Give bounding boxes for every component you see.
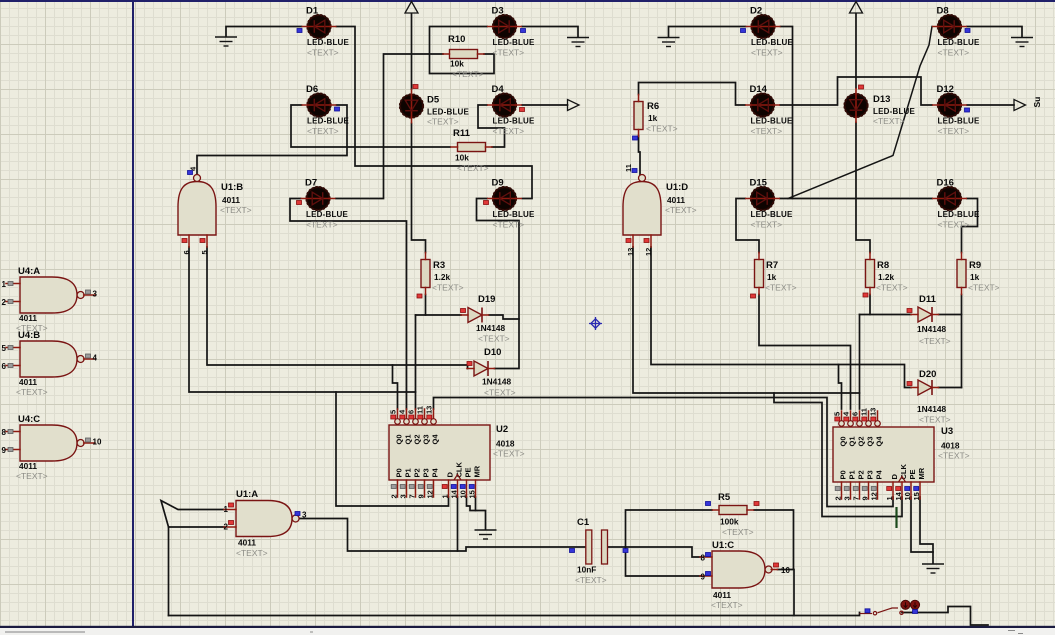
wire R9 bottom to diode cathode bus bbox=[961, 295, 963, 388]
LED D14 (LED-BLUE) bbox=[745, 93, 780, 117]
svg-text:4018: 4018 bbox=[496, 439, 515, 449]
wire node to U1:C pin9 bbox=[626, 547, 701, 576]
wire D19 cathode jog bbox=[489, 315, 519, 319]
wire U3 Q2 vertical bbox=[859, 315, 861, 410]
resistor R7 bbox=[755, 260, 764, 288]
svg-text:100k: 100k bbox=[720, 517, 739, 527]
wire green segment at U3 D pin bbox=[895, 507, 897, 528]
svg-text:10nF: 10nF bbox=[577, 565, 596, 575]
LED D6 (LED-BLUE) bbox=[302, 93, 337, 117]
svg-text:LED-BLUE: LED-BLUE bbox=[751, 117, 794, 126]
port arrow P1 bbox=[405, 2, 418, 14]
svg-text:<TEXT>: <TEXT> bbox=[493, 449, 525, 459]
ground GND4 bbox=[1011, 38, 1033, 47]
resistor R11 bbox=[458, 143, 486, 152]
gate body U1:C bbox=[712, 551, 765, 588]
svg-text:D16: D16 bbox=[937, 178, 954, 189]
sheet border left bbox=[132, 0, 134, 627]
wire D7 left loop to U2 Q1 bbox=[290, 199, 407, 410]
svg-text:LED-BLUE: LED-BLUE bbox=[427, 108, 470, 117]
node square R5 right bbox=[754, 502, 759, 506]
svg-text:Q1: Q1 bbox=[403, 434, 412, 444]
svg-text:D14: D14 bbox=[750, 84, 768, 95]
wire U1:B pin6 to U2 Q2 net bbox=[189, 247, 416, 392]
pins U4:C bbox=[6, 431, 20, 433]
svg-text:15: 15 bbox=[468, 490, 477, 498]
wire D15 right to D16 left bbox=[780, 198, 932, 200]
wire D16 right to R9 top bbox=[962, 199, 978, 253]
svg-text:13: 13 bbox=[869, 408, 878, 416]
svg-text:<TEXT>: <TEXT> bbox=[919, 336, 951, 346]
svg-text:3: 3 bbox=[302, 511, 307, 520]
svg-text:CLK: CLK bbox=[899, 464, 908, 480]
svg-text:D7: D7 bbox=[305, 178, 317, 189]
wire D5 bottom to R3 top bbox=[412, 124, 426, 253]
wire R8 junction to D11 anode bbox=[860, 314, 912, 316]
svg-text:5: 5 bbox=[833, 412, 842, 416]
svg-text:Q0: Q0 bbox=[394, 434, 403, 444]
wire D8 cathode to ground bbox=[967, 27, 1022, 38]
svg-text:10: 10 bbox=[781, 566, 790, 575]
pins U2 D CLK PE MR bbox=[448, 480, 450, 497]
sheet border top bbox=[0, 0, 1055, 2]
svg-text:2: 2 bbox=[834, 496, 843, 500]
svg-text:12: 12 bbox=[426, 490, 435, 498]
svg-text:U3: U3 bbox=[941, 426, 953, 437]
svg-text:D4: D4 bbox=[492, 84, 505, 95]
svg-text:4011: 4011 bbox=[19, 313, 37, 323]
node square D9 bbox=[484, 201, 489, 205]
svg-text:LED-BLUE: LED-BLUE bbox=[938, 117, 981, 126]
wire D6 left to R11 left bbox=[291, 105, 450, 147]
svg-text:U1:B: U1:B bbox=[221, 182, 243, 193]
svg-text:1N4148: 1N4148 bbox=[917, 324, 946, 334]
wire D11 cathode to bus bbox=[939, 314, 962, 316]
svg-text:4011: 4011 bbox=[238, 538, 256, 548]
node square D19 bbox=[461, 309, 466, 313]
node square D3 bbox=[521, 29, 526, 33]
svg-text:D15: D15 bbox=[750, 178, 768, 189]
svg-text:D19: D19 bbox=[478, 294, 495, 305]
svg-text:LED-BLUE: LED-BLUE bbox=[751, 210, 794, 219]
svg-text:<TEXT>: <TEXT> bbox=[493, 126, 525, 136]
svg-text:D13: D13 bbox=[873, 94, 890, 105]
resistor R8 bbox=[866, 260, 875, 288]
switch knobs bbox=[901, 600, 910, 609]
svg-text:<TEXT>: <TEXT> bbox=[646, 124, 678, 134]
svg-text:U1:C: U1:C bbox=[712, 540, 734, 551]
wire switch right to sheet corner bbox=[902, 607, 988, 626]
svg-text:6: 6 bbox=[851, 412, 860, 416]
wire U1:B pin5 to D10 anode bbox=[207, 247, 468, 369]
wire feedback down bbox=[168, 527, 170, 616]
wire branch to U2 D pin bbox=[336, 392, 449, 506]
svg-text:<TEXT>: <TEXT> bbox=[452, 69, 484, 79]
svg-text:8: 8 bbox=[701, 554, 706, 563]
LED D1 (LED-BLUE) bbox=[302, 14, 337, 38]
wire D2 anode down to row3 net bbox=[781, 27, 793, 199]
svg-text:12: 12 bbox=[870, 492, 879, 500]
svg-text:1N4148: 1N4148 bbox=[476, 323, 505, 333]
svg-text:LED-BLUE: LED-BLUE bbox=[938, 38, 981, 47]
svg-text:8: 8 bbox=[2, 428, 7, 437]
gate body U4:C bbox=[20, 425, 77, 461]
svg-text:1.2k: 1.2k bbox=[878, 272, 895, 282]
wire D2 cathode to ground bbox=[669, 27, 746, 38]
port arrow P2 bbox=[850, 2, 863, 14]
resistor R3 bbox=[421, 260, 430, 288]
node square C1 left bbox=[570, 549, 575, 553]
svg-text:5: 5 bbox=[389, 410, 398, 414]
IC U3 body (4018) bbox=[833, 427, 934, 482]
svg-text:<TEXT>: <TEXT> bbox=[968, 283, 1000, 293]
svg-text:<TEXT>: <TEXT> bbox=[919, 415, 951, 425]
svg-text:1: 1 bbox=[2, 280, 7, 289]
svg-text:P2: P2 bbox=[412, 468, 421, 477]
gate body U4:B bbox=[20, 341, 77, 377]
svg-text:LED-BLUE: LED-BLUE bbox=[493, 117, 536, 126]
svg-text:7: 7 bbox=[408, 494, 417, 498]
LED D16 (LED-BLUE) bbox=[932, 186, 967, 210]
clock chevron U2 bbox=[454, 475, 461, 481]
svg-text:3: 3 bbox=[399, 494, 408, 498]
capacitor C1 bbox=[586, 530, 592, 564]
svg-text:<TEXT>: <TEXT> bbox=[711, 600, 743, 610]
svg-text:<TEXT>: <TEXT> bbox=[484, 388, 516, 398]
wire bottom rail bbox=[169, 613, 860, 616]
svg-text:13: 13 bbox=[425, 406, 434, 414]
svg-text:Q4: Q4 bbox=[430, 434, 439, 445]
svg-text:LED-BLUE: LED-BLUE bbox=[307, 117, 350, 126]
svg-text:2: 2 bbox=[224, 523, 229, 532]
node square D5 bbox=[413, 85, 418, 89]
LED D15 (LED-BLUE) bbox=[745, 186, 780, 210]
svg-text:<TEXT>: <TEXT> bbox=[457, 163, 489, 173]
diode D11 (1N4148) bbox=[918, 307, 932, 322]
port arrow OUT2 Su bbox=[1014, 100, 1026, 111]
wire D9 left loop to cathode bus bbox=[477, 199, 520, 369]
svg-text:Q2: Q2 bbox=[412, 434, 421, 444]
svg-text:LED-BLUE: LED-BLUE bbox=[873, 107, 916, 116]
svg-text:U1:D: U1:D bbox=[666, 182, 688, 193]
svg-text:9: 9 bbox=[2, 446, 7, 455]
node square D20 bbox=[907, 382, 912, 386]
wire D15 left loop to R7 top bbox=[736, 199, 759, 253]
node square R3 bottom bbox=[417, 294, 422, 298]
ground GND5 bbox=[475, 530, 497, 539]
svg-text:R11: R11 bbox=[453, 128, 471, 139]
clock chevron U3 bbox=[899, 477, 906, 483]
ground GND6 bbox=[922, 564, 944, 573]
wire D6 right to U1:B output bbox=[197, 105, 347, 175]
svg-text:R8: R8 bbox=[877, 260, 889, 271]
svg-text:15: 15 bbox=[912, 492, 921, 500]
node square D13 bbox=[859, 85, 864, 89]
wire D3 anode loop to R10 bbox=[430, 27, 495, 74]
svg-text:<TEXT>: <TEXT> bbox=[665, 205, 697, 215]
svg-text:C1: C1 bbox=[577, 517, 590, 528]
svg-text:9: 9 bbox=[701, 573, 706, 582]
svg-text:R3: R3 bbox=[433, 260, 445, 271]
wire D13 bottom to R8 top bbox=[856, 123, 870, 253]
node square D12 bbox=[965, 108, 970, 112]
wire U3 PE to ground bbox=[911, 497, 933, 552]
svg-text:Su: Su bbox=[1032, 97, 1042, 108]
svg-text:R6: R6 bbox=[647, 101, 659, 112]
svg-text:<TEXT>: <TEXT> bbox=[307, 126, 339, 136]
port arrow OUT1 bbox=[568, 100, 580, 111]
wire D1 cathode to ground bbox=[226, 27, 302, 37]
svg-text:3: 3 bbox=[843, 496, 852, 500]
svg-text:2: 2 bbox=[390, 494, 399, 498]
svg-text:11: 11 bbox=[624, 164, 633, 172]
pins U1:C bbox=[700, 556, 712, 558]
wire U2 CLK down to oscillator rail bbox=[457, 497, 459, 551]
svg-text:Q4: Q4 bbox=[874, 436, 883, 447]
svg-text:12: 12 bbox=[644, 248, 653, 256]
resistor R5 bbox=[719, 506, 747, 515]
wire D12 right to Su arrow bbox=[967, 104, 1014, 106]
svg-text:Q3: Q3 bbox=[865, 436, 874, 446]
svg-text:P1: P1 bbox=[403, 468, 412, 477]
svg-text:<TEXT>: <TEXT> bbox=[575, 575, 607, 585]
LED D12 (LED-BLUE) bbox=[932, 93, 967, 117]
svg-text:6: 6 bbox=[407, 410, 416, 414]
svg-text:D3: D3 bbox=[492, 6, 504, 17]
svg-text:P0: P0 bbox=[394, 468, 403, 477]
svg-text:4: 4 bbox=[93, 354, 98, 363]
svg-text:3: 3 bbox=[93, 290, 98, 299]
svg-text:7: 7 bbox=[852, 496, 861, 500]
svg-text:LED-BLUE: LED-BLUE bbox=[306, 210, 349, 219]
node square D2 bbox=[741, 29, 746, 33]
svg-text:<TEXT>: <TEXT> bbox=[478, 334, 510, 344]
svg-text:<TEXT>: <TEXT> bbox=[493, 48, 525, 58]
wire D1 anode to D9 net bbox=[337, 27, 533, 199]
svg-text:<TEXT>: <TEXT> bbox=[751, 220, 783, 230]
svg-text:<TEXT>: <TEXT> bbox=[751, 48, 783, 58]
svg-text:<TEXT>: <TEXT> bbox=[427, 117, 459, 127]
resistor R9 bbox=[957, 260, 966, 288]
svg-text:4011: 4011 bbox=[713, 590, 731, 600]
wire R3 junction to D19 anode bbox=[416, 314, 462, 316]
svg-text:<TEXT>: <TEXT> bbox=[876, 283, 908, 293]
svg-text:1.2k: 1.2k bbox=[434, 272, 451, 282]
svg-text:6: 6 bbox=[2, 362, 7, 371]
LED D9 (LED-BLUE) bbox=[487, 186, 522, 210]
diode D19 (1N4148) bbox=[468, 308, 482, 323]
svg-text:<TEXT>: <TEXT> bbox=[751, 126, 783, 136]
svg-text:U4:B: U4:B bbox=[18, 330, 40, 341]
wire port arrow to D5 top bbox=[411, 14, 413, 90]
svg-text:<TEXT>: <TEXT> bbox=[236, 548, 268, 558]
svg-text:LED-BLUE: LED-BLUE bbox=[938, 210, 981, 219]
pins U4:B bbox=[6, 347, 20, 349]
svg-text:D11: D11 bbox=[919, 294, 937, 305]
svg-text:<TEXT>: <TEXT> bbox=[722, 527, 754, 537]
svg-text:LED-BLUE: LED-BLUE bbox=[307, 38, 350, 47]
svg-text:PE: PE bbox=[463, 467, 472, 477]
svg-text:D: D bbox=[445, 472, 454, 478]
svg-text:P3: P3 bbox=[865, 470, 874, 479]
wire C1 right to U1:C pin8 bbox=[608, 547, 700, 557]
svg-text:MR: MR bbox=[472, 465, 481, 477]
wire U1:C output down to rail bbox=[793, 570, 795, 616]
ground GND1 bbox=[215, 37, 237, 46]
wire U3 MR to ground bbox=[920, 497, 933, 564]
svg-text:<TEXT>: <TEXT> bbox=[938, 220, 970, 230]
svg-text:11: 11 bbox=[416, 406, 425, 414]
svg-text:U4:C: U4:C bbox=[18, 414, 40, 425]
node square C1 node bbox=[623, 549, 628, 553]
svg-text:<TEXT>: <TEXT> bbox=[938, 451, 970, 461]
diode D20 (1N4148) bbox=[918, 380, 932, 395]
svg-text:P4: P4 bbox=[430, 467, 439, 477]
wire branch to U3 CLK bbox=[774, 393, 902, 517]
svg-text:R7: R7 bbox=[766, 260, 778, 271]
svg-text:D9: D9 bbox=[492, 178, 504, 189]
diode D10 (1N4148) bbox=[474, 361, 488, 376]
svg-text:1k: 1k bbox=[970, 272, 980, 282]
pins U1:A bbox=[224, 509, 236, 511]
node square R6 bottom bbox=[633, 136, 638, 140]
IC U2 body (4018) bbox=[389, 425, 490, 480]
gate body U4:A bbox=[20, 277, 77, 313]
svg-text:4011: 4011 bbox=[222, 195, 240, 205]
svg-text:13: 13 bbox=[626, 248, 635, 256]
svg-text:P1: P1 bbox=[847, 470, 856, 479]
LED D5 (LED-BLUE) bbox=[394, 89, 424, 124]
node square D6 bbox=[335, 107, 340, 111]
pins U3 top Q0-Q4 bbox=[841, 411, 843, 421]
pins U1:B bbox=[188, 235, 190, 247]
svg-text:<TEXT>: <TEXT> bbox=[493, 220, 525, 230]
svg-text:<TEXT>: <TEXT> bbox=[306, 220, 338, 230]
pins U4:A bbox=[6, 283, 20, 285]
node square D8 bbox=[965, 29, 970, 33]
svg-text:<TEXT>: <TEXT> bbox=[307, 48, 339, 58]
pins U3 bottom P0-P4 bbox=[841, 482, 843, 499]
svg-text:LED-BLUE: LED-BLUE bbox=[493, 210, 536, 219]
svg-text:1N4148: 1N4148 bbox=[917, 404, 946, 414]
svg-text:D1: D1 bbox=[306, 6, 319, 17]
svg-text:4018: 4018 bbox=[941, 441, 960, 451]
wire U2 Q4 to U3 D pin bbox=[434, 398, 894, 507]
svg-text:D20: D20 bbox=[919, 369, 936, 380]
svg-text:PE: PE bbox=[908, 469, 917, 479]
LED D2 (LED-BLUE) bbox=[746, 14, 781, 38]
svg-text:MR: MR bbox=[917, 467, 926, 479]
wire R5 right to U1:C output bbox=[754, 510, 794, 570]
svg-text:<TEXT>: <TEXT> bbox=[220, 205, 252, 215]
wire R3 bottom junction bbox=[425, 295, 427, 316]
svg-text:5: 5 bbox=[2, 344, 7, 353]
svg-text:LED-BLUE: LED-BLUE bbox=[751, 38, 794, 47]
wire D3 cathode to ground bbox=[522, 27, 578, 38]
svg-text:U4:A: U4:A bbox=[18, 266, 40, 277]
wire U1:D pin13 to U3 Q2 net bbox=[633, 247, 860, 393]
svg-text:<TEXT>: <TEXT> bbox=[432, 283, 464, 293]
svg-text:Q2: Q2 bbox=[856, 436, 865, 446]
svg-text:1k: 1k bbox=[767, 272, 777, 282]
wire D20 cathode to bus bbox=[939, 387, 962, 389]
svg-text:<TEXT>: <TEXT> bbox=[938, 48, 970, 58]
LED D7 (LED-BLUE) bbox=[301, 186, 336, 210]
wire D4 left loop to R11 right bbox=[478, 105, 505, 147]
resistor R6 bbox=[634, 102, 643, 130]
ground GND2 bbox=[567, 38, 589, 47]
svg-text:10k: 10k bbox=[455, 153, 469, 163]
node square D4 bbox=[520, 108, 525, 112]
node square D11 bbox=[907, 309, 912, 313]
LED D13 (LED-BLUE) bbox=[839, 88, 869, 123]
LED D4 (LED-BLUE) bbox=[487, 93, 522, 117]
svg-text:Q3: Q3 bbox=[421, 434, 430, 444]
node square D1 bbox=[297, 29, 302, 33]
svg-text:P3: P3 bbox=[421, 468, 430, 477]
svg-text:9: 9 bbox=[861, 496, 870, 500]
svg-text:D12: D12 bbox=[937, 84, 954, 95]
svg-text:<TEXT>: <TEXT> bbox=[873, 116, 905, 126]
wire U1:D pin12 to D20 anode bbox=[651, 247, 911, 388]
svg-text:1N4148: 1N4148 bbox=[482, 377, 511, 387]
wire U2 PE to ground bbox=[467, 497, 486, 530]
wire U1:A input funnel bbox=[161, 501, 224, 528]
ground GND3 bbox=[658, 38, 680, 47]
svg-text:D10: D10 bbox=[484, 347, 501, 358]
svg-text:D6: D6 bbox=[306, 84, 318, 95]
wire port arrow 2 to D13 top bbox=[855, 14, 857, 89]
svg-text:D8: D8 bbox=[937, 6, 949, 17]
wire R7 bottom to U3 Q1 bbox=[759, 295, 851, 410]
svg-text:14: 14 bbox=[894, 491, 903, 500]
svg-text:P4: P4 bbox=[874, 469, 883, 479]
svg-text:1: 1 bbox=[885, 496, 894, 500]
svg-text:U1:A: U1:A bbox=[236, 489, 258, 500]
svg-text:Q0: Q0 bbox=[838, 436, 847, 446]
svg-text:R9: R9 bbox=[969, 260, 981, 271]
origin marker bbox=[589, 317, 602, 330]
node square R5 left bbox=[706, 502, 711, 506]
svg-text:11: 11 bbox=[860, 408, 869, 416]
wire R6 bottom to U1:D output bbox=[639, 136, 641, 175]
wire branch to U3 Q0 bbox=[839, 365, 842, 410]
wire D14 right box over D13 to D12 bbox=[780, 77, 932, 105]
svg-text:10: 10 bbox=[93, 438, 102, 447]
svg-text:2: 2 bbox=[2, 298, 7, 307]
svg-text:5: 5 bbox=[200, 250, 209, 254]
wire D4 right to output arrow bbox=[522, 104, 568, 106]
node square D7 bbox=[297, 201, 302, 205]
svg-text:Q1: Q1 bbox=[847, 436, 856, 446]
svg-text:U2: U2 bbox=[496, 424, 508, 435]
pins U3 D CLK PE MR bbox=[892, 482, 894, 499]
svg-text:R5: R5 bbox=[718, 492, 731, 503]
wire R6 top to D14 left bbox=[639, 83, 746, 106]
LED D8 (LED-BLUE) bbox=[932, 14, 967, 38]
LED D3 (LED-BLUE) bbox=[487, 14, 522, 38]
svg-text:P2: P2 bbox=[856, 470, 865, 479]
svg-text:10: 10 bbox=[459, 490, 468, 498]
pins U1:D bbox=[632, 235, 634, 247]
wire U2 MR stub join bbox=[475, 497, 477, 511]
svg-text:1: 1 bbox=[441, 494, 450, 498]
switch SW1 bbox=[860, 608, 904, 615]
svg-text:9: 9 bbox=[417, 494, 426, 498]
svg-text:6: 6 bbox=[182, 250, 191, 254]
switch state squares bbox=[865, 609, 870, 613]
wire U1:A output to C1 bbox=[299, 519, 586, 552]
